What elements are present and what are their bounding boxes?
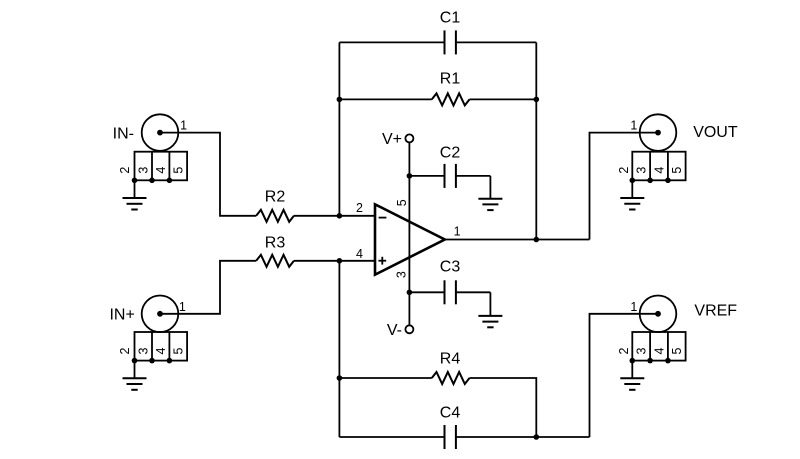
junction J2 pin4 (167, 358, 173, 364)
junction output node (534, 237, 540, 243)
junction J1 pin2 (132, 178, 138, 184)
ground C2 (478, 176, 502, 210)
wire right feedback rail top (535, 42, 537, 239)
ground J1 (123, 180, 147, 209)
junction J4 pin4 (665, 358, 671, 364)
junction R1 right (534, 97, 540, 103)
wire left feedback rail bottom (338, 261, 340, 437)
svg-text:3: 3 (635, 347, 649, 354)
junction J1 pin3 (149, 178, 155, 184)
svg-text:V-: V- (387, 322, 402, 339)
junction J2 pin2 (132, 358, 138, 364)
svg-text:C4: C4 (440, 404, 461, 421)
junction J3 pin3 (647, 178, 653, 184)
connector J4 VREF body (640, 296, 677, 333)
ground C3 (478, 292, 502, 327)
svg-text:1: 1 (179, 300, 186, 314)
junction R4 left (337, 375, 343, 381)
wire V+ rail (408, 142, 410, 325)
op-amp plus input mark (378, 257, 386, 265)
op-amp minus input mark (379, 217, 387, 219)
svg-text:1: 1 (630, 300, 637, 314)
svg-text:4: 4 (652, 167, 666, 174)
svg-text:V+: V+ (382, 131, 402, 148)
svg-text:3: 3 (635, 167, 649, 174)
capacitor C2 (409, 164, 490, 188)
connector J1 IN- body (142, 114, 179, 151)
ground J2 (123, 361, 147, 390)
resistor R4 (339, 372, 536, 437)
connector J1 shield box (135, 152, 188, 181)
svg-text:R3: R3 (265, 235, 286, 252)
junction R1 left (337, 97, 343, 103)
junction J2 pin3 (149, 358, 155, 364)
svg-text:2: 2 (118, 347, 132, 354)
svg-text:5: 5 (395, 199, 409, 206)
svg-text:2: 2 (356, 201, 363, 215)
svg-text:3: 3 (137, 167, 151, 174)
svg-text:R1: R1 (440, 71, 461, 88)
connector J4 shield box (632, 332, 685, 361)
node V- terminal (405, 325, 413, 333)
svg-text:5: 5 (670, 167, 684, 174)
svg-text:1: 1 (454, 224, 461, 238)
junction V- / C3 (407, 290, 413, 296)
junction J3 pin2 (630, 178, 636, 184)
svg-text:1: 1 (630, 119, 637, 133)
junction node B (337, 258, 343, 264)
svg-text:2: 2 (118, 167, 132, 174)
node V+ terminal (405, 134, 413, 142)
ground J3 (620, 180, 644, 209)
resistor R2 (256, 210, 294, 222)
svg-text:C1: C1 (440, 10, 461, 27)
wire J1 pin1 to R2 (160, 133, 256, 216)
svg-text:2: 2 (617, 167, 631, 174)
svg-text:IN+: IN+ (109, 307, 134, 324)
resistor R1 (339, 93, 536, 105)
svg-text:5: 5 (172, 347, 186, 354)
junction V+ / C2 (407, 173, 413, 179)
connector J3 VOUT body (640, 114, 677, 151)
svg-text:4: 4 (154, 167, 168, 174)
capacitor C1 (339, 30, 536, 54)
svg-text:C2: C2 (440, 145, 461, 162)
wire op-amp output (445, 239, 590, 241)
junction J1 pin4 (167, 178, 173, 184)
svg-text:5: 5 (172, 167, 186, 174)
op-amp U1 (375, 204, 445, 274)
wire R3 to node B (294, 260, 340, 262)
svg-text:3: 3 (137, 347, 151, 354)
connector J2 shield box (135, 332, 188, 361)
wire R2 to node A (294, 215, 340, 217)
wire VREF riser (590, 314, 659, 437)
svg-text:R2: R2 (265, 188, 286, 205)
svg-text:4: 4 (154, 347, 168, 354)
svg-text:1: 1 (180, 118, 187, 132)
wire output riser to VOUT (590, 133, 659, 240)
connector J3 shield box (632, 152, 685, 181)
svg-text:C3: C3 (440, 259, 461, 276)
svg-text:3: 3 (394, 271, 408, 278)
ground J4 (620, 361, 644, 390)
svg-text:VOUT: VOUT (693, 124, 738, 141)
junction J3 pin4 (665, 178, 671, 184)
svg-text:R4: R4 (440, 351, 461, 368)
svg-text:IN-: IN- (113, 125, 134, 142)
junction J4 pin2 (630, 358, 636, 364)
svg-text:4: 4 (356, 247, 363, 261)
svg-text:4: 4 (652, 347, 666, 354)
svg-text:VREF: VREF (694, 303, 737, 320)
junction node A (337, 213, 343, 219)
wire node B to op-amp pin 4 (339, 260, 375, 262)
resistor R3 (256, 255, 294, 267)
connector J2 IN+ body (142, 296, 179, 333)
wire left feedback rail top (338, 42, 340, 215)
svg-text:5: 5 (670, 347, 684, 354)
junction J4 pin3 (647, 358, 653, 364)
capacitor C3 (409, 280, 490, 304)
junction R4/C4 right (534, 434, 540, 440)
svg-text:2: 2 (617, 347, 631, 354)
capacitor C4 (339, 425, 589, 449)
wire J2 pin1 to R3 (160, 261, 256, 314)
wire node A to op-amp pin 2 (339, 215, 375, 217)
